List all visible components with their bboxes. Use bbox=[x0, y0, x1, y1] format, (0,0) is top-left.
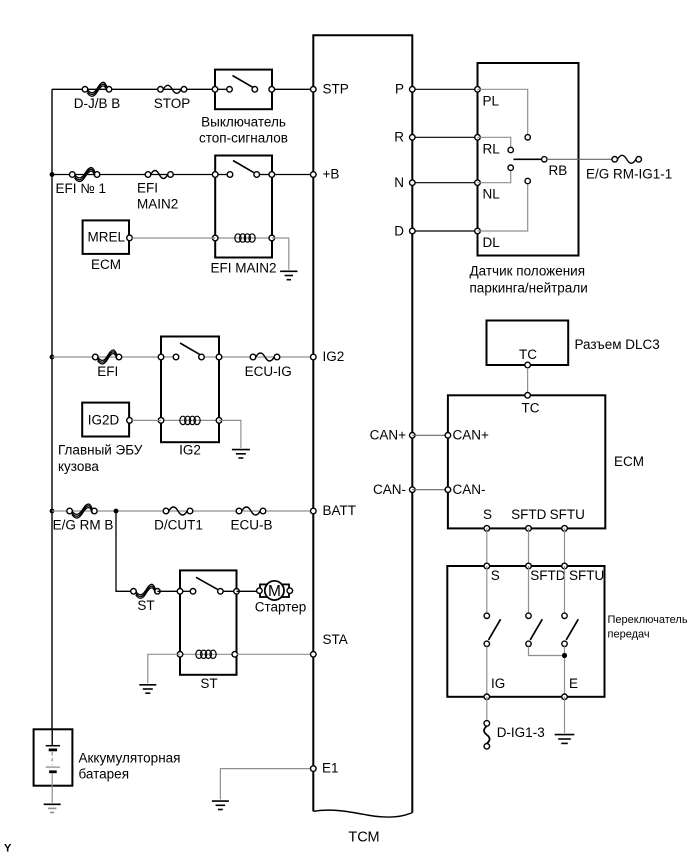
svg-text:STOP: STOP bbox=[154, 96, 191, 111]
label RB bbox=[549, 163, 568, 178]
wire SFTU to E bbox=[564, 647, 566, 697]
svg-text:ECM: ECM bbox=[91, 257, 121, 272]
pin CAN+ tcm bbox=[410, 433, 416, 439]
box shift switch bbox=[447, 566, 604, 697]
relay IG2 box bbox=[161, 337, 219, 443]
label STP bbox=[323, 81, 349, 96]
wire D row bbox=[412, 230, 477, 232]
label RL bbox=[483, 141, 501, 156]
pin SFTU ecm bbox=[562, 526, 568, 532]
label TC ecm bbox=[522, 401, 540, 416]
label S sw bbox=[491, 568, 500, 583]
wire SFTD down bbox=[528, 528, 530, 566]
fuse ECU-B bbox=[236, 507, 266, 515]
wire STP row bbox=[52, 88, 313, 90]
IC TCM (transmission control module) outline with torn bottom edge bbox=[313, 35, 412, 817]
wire CAN- bbox=[412, 489, 448, 491]
pin CAN+ ecm bbox=[445, 433, 451, 439]
label IG bbox=[491, 676, 505, 691]
label CAN+ ecm bbox=[453, 428, 490, 443]
ground G5 E1 bbox=[212, 801, 229, 809]
wire IG2D to relay coil bbox=[132, 419, 161, 421]
label N bbox=[394, 175, 404, 190]
wire BATT row bbox=[52, 510, 313, 512]
label IG2 relay bbox=[179, 443, 201, 458]
wire SFTD to junction bbox=[529, 647, 565, 656]
svg-text:ST: ST bbox=[137, 598, 154, 613]
svg-text:Переключатель: Переключатель bbox=[608, 614, 688, 626]
ground G4 battery bbox=[44, 804, 61, 812]
svg-text:EFI № 1: EFI № 1 bbox=[56, 181, 107, 196]
svg-text:EFI: EFI bbox=[137, 180, 158, 195]
box park/neutral position sensor bbox=[478, 63, 579, 256]
svg-text:N: N bbox=[394, 175, 404, 190]
pin STA bbox=[311, 652, 317, 658]
label E/G RM-IG1-1 bbox=[586, 166, 672, 181]
svg-text:SFTU: SFTU bbox=[569, 568, 604, 583]
svg-text:паркинга/нейтрали: паркинга/нейтрали bbox=[470, 280, 588, 295]
relay ST coil bbox=[177, 650, 237, 658]
label SFTU sw bbox=[569, 568, 604, 583]
wire P row bbox=[412, 88, 477, 90]
switch S contacts bbox=[484, 566, 501, 647]
label E/G RM B bbox=[53, 518, 114, 533]
label TCM bbox=[348, 830, 379, 846]
svg-text:D: D bbox=[394, 223, 404, 238]
wire SFTU down bbox=[564, 528, 566, 566]
label BATT bbox=[323, 503, 357, 518]
svg-text:ST: ST bbox=[200, 676, 217, 691]
label CAN+ tcm bbox=[370, 428, 407, 443]
pin S ecm bbox=[484, 526, 490, 532]
label E1 bbox=[322, 761, 339, 776]
svg-text:стоп-сигналов: стоп-сигналов bbox=[199, 130, 288, 145]
svg-text:IG2D: IG2D bbox=[88, 412, 120, 427]
svg-text:E/G RM B: E/G RM B bbox=[53, 518, 114, 533]
svg-text:IG2: IG2 bbox=[323, 349, 345, 364]
svg-text:Аккумуляторная: Аккумуляторная bbox=[79, 750, 181, 765]
svg-text:S: S bbox=[483, 507, 492, 522]
svg-text:CAN-: CAN- bbox=[453, 482, 486, 497]
wire left supply bus from battery bbox=[51, 89, 53, 729]
relay IG2 contact bbox=[158, 343, 222, 360]
wire N row bbox=[412, 182, 477, 184]
wire coil to ground G1 bbox=[272, 238, 289, 270]
svg-text:ECU-B: ECU-B bbox=[230, 518, 272, 533]
pin P bbox=[410, 87, 416, 93]
fuse EFI MAIN2 bbox=[145, 171, 173, 179]
svg-text:TC: TC bbox=[522, 401, 540, 416]
label EFI MAIN2 relay bbox=[210, 261, 276, 276]
svg-text:Выключатель: Выключатель bbox=[201, 115, 286, 130]
svg-text:D-IG1-3: D-IG1-3 bbox=[497, 725, 545, 740]
svg-text:MREL: MREL bbox=[88, 230, 126, 245]
label S ecm bbox=[483, 507, 492, 522]
svg-text:CAN+: CAN+ bbox=[370, 428, 407, 443]
ground G6 shift switch E bbox=[555, 735, 575, 744]
svg-text:CAN-: CAN- bbox=[373, 482, 406, 497]
relay ST contact bbox=[177, 577, 239, 594]
pin IG2 bbox=[311, 354, 317, 360]
label CAN- tcm bbox=[373, 482, 406, 497]
pin CAN- ecm bbox=[445, 487, 451, 493]
pin SFTD ecm bbox=[526, 526, 532, 532]
fuse STOP bbox=[158, 85, 187, 93]
svg-text:передач: передач bbox=[608, 628, 650, 640]
box MREL (ECM) bbox=[83, 220, 129, 254]
label NL bbox=[483, 187, 501, 202]
label PL bbox=[483, 93, 500, 108]
wire RL to contact bbox=[478, 137, 511, 147]
svg-text:IG: IG bbox=[491, 676, 505, 691]
wire MREL to relay coil bbox=[132, 237, 215, 239]
svg-text:EFI MAIN2: EFI MAIN2 bbox=[210, 261, 276, 276]
svg-text:D/CUT1: D/CUT1 bbox=[154, 518, 203, 533]
svg-text:ECM: ECM bbox=[614, 454, 644, 469]
node junction IG2 row bbox=[50, 355, 55, 360]
svg-text:P: P bbox=[395, 82, 404, 97]
wire IG to fuse bbox=[486, 697, 488, 721]
svg-text:кузова: кузова bbox=[58, 459, 99, 474]
label CAN- ecm bbox=[453, 482, 486, 497]
fuse D/CUT1 bbox=[163, 507, 193, 515]
svg-text:STA: STA bbox=[323, 632, 348, 647]
box ECM bbox=[448, 395, 605, 528]
contact DL bbox=[525, 178, 530, 183]
wire S down bbox=[486, 528, 488, 566]
svg-text:STP: STP bbox=[323, 81, 349, 96]
label TC in DLC3 bbox=[519, 347, 537, 362]
label Стартер bbox=[255, 600, 307, 615]
pin E bbox=[562, 694, 568, 700]
wire ST branch drop bbox=[116, 511, 134, 591]
relay EFI MAIN2 box bbox=[215, 156, 272, 258]
fuse EFI No1 bbox=[70, 168, 100, 182]
label EFI № 1 bbox=[56, 181, 107, 196]
pin PL bbox=[475, 87, 481, 93]
pin NL bbox=[475, 180, 481, 186]
wire R row bbox=[412, 136, 477, 138]
svg-text:PL: PL bbox=[483, 93, 500, 108]
pin STP bbox=[311, 87, 317, 93]
label E bbox=[569, 676, 578, 691]
pin +B bbox=[311, 172, 317, 178]
contact NL bbox=[508, 165, 513, 170]
fuse D-J/B B bbox=[82, 82, 112, 96]
svg-text:RB: RB bbox=[549, 163, 568, 178]
svg-text:R: R bbox=[394, 130, 404, 145]
pin D bbox=[410, 228, 416, 234]
relay EFI MAIN2 coil bbox=[212, 234, 274, 242]
pin MREL output bbox=[127, 235, 133, 241]
wire ST fuse to relay bbox=[157, 590, 180, 592]
pin DL bbox=[475, 228, 481, 234]
svg-text:E: E bbox=[569, 676, 578, 691]
svg-text:SFTD: SFTD bbox=[511, 507, 546, 522]
label ST fuse bbox=[137, 598, 154, 613]
label DL bbox=[483, 235, 501, 250]
wire NL to contact bbox=[478, 171, 511, 183]
motor starter M bbox=[257, 581, 293, 600]
battery cells bbox=[46, 729, 60, 803]
label SFTU ecm bbox=[550, 507, 585, 522]
label EFI bbox=[97, 364, 118, 379]
svg-text:Стартер: Стартер bbox=[255, 600, 307, 615]
label ECU-IG bbox=[245, 364, 292, 379]
label P bbox=[395, 82, 404, 97]
pin SFTU sw bbox=[562, 563, 568, 569]
svg-text:SFTU: SFTU bbox=[550, 507, 585, 522]
label Переключатель передач bbox=[608, 614, 688, 641]
fuse D-IG1-3 bbox=[484, 721, 490, 749]
label D-IG1-3 bbox=[497, 725, 545, 740]
pin BATT bbox=[311, 508, 317, 514]
relay IG2 coil bbox=[158, 416, 222, 424]
svg-text:E/G RM-IG1-1: E/G RM-IG1-1 bbox=[586, 166, 672, 181]
pin IG bbox=[484, 694, 490, 700]
svg-text:SFTD: SFTD bbox=[530, 568, 565, 583]
label SFTD sw bbox=[530, 568, 565, 583]
node junction +B row bbox=[50, 172, 55, 177]
label Главный ЭБУ кузова bbox=[58, 443, 143, 474]
svg-text:Y: Y bbox=[4, 843, 12, 855]
wire IG2 coil to ground G2 bbox=[219, 420, 241, 448]
node junction SFTD/SFTU bbox=[562, 653, 567, 658]
wire RB to fuse bbox=[547, 158, 615, 160]
ground G3 bbox=[139, 685, 156, 693]
svg-text:CAN+: CAN+ bbox=[453, 428, 490, 443]
label D/CUT1 bbox=[154, 518, 203, 533]
fuse EFI bbox=[93, 350, 122, 364]
svg-text:S: S bbox=[491, 568, 500, 583]
label Разъем DLC3 bbox=[575, 337, 660, 352]
wire ST coil to ground G3 bbox=[148, 654, 180, 683]
svg-text:E1: E1 bbox=[322, 761, 339, 776]
label R bbox=[394, 130, 404, 145]
switch SFTD contacts bbox=[526, 566, 543, 647]
pin SFTD sw bbox=[526, 563, 532, 569]
svg-text:TC: TC bbox=[519, 347, 537, 362]
pin TC ecm bbox=[525, 393, 531, 399]
label ECU-B bbox=[230, 518, 272, 533]
svg-text:DL: DL bbox=[483, 235, 501, 250]
pin TC dlc3 bbox=[525, 362, 531, 368]
node junction ST branch bbox=[114, 509, 119, 514]
pin N bbox=[410, 180, 416, 186]
label Выключатель стоп-сигналов bbox=[199, 115, 288, 146]
contact RL bbox=[508, 147, 513, 152]
label Датчик положения паркинга/нейтрали bbox=[470, 263, 588, 295]
label ST relay bbox=[200, 676, 217, 691]
svg-text:IG2: IG2 bbox=[179, 443, 201, 458]
relay EFI MAIN2 contact bbox=[212, 161, 274, 178]
pin RL bbox=[475, 135, 481, 141]
label MREL bbox=[88, 230, 126, 245]
label EFI MAIN2 fuse bbox=[137, 180, 178, 211]
label IG2 bbox=[323, 349, 345, 364]
box DLC3 connector bbox=[487, 321, 569, 366]
svg-text:+B: +B bbox=[323, 167, 340, 182]
svg-text:Разъем DLC3: Разъем DLC3 bbox=[575, 337, 660, 352]
label D-J/B B bbox=[74, 96, 121, 111]
label ECM bbox=[614, 454, 644, 469]
svg-text:Главный ЭБУ: Главный ЭБУ bbox=[58, 443, 143, 458]
svg-text:ECU-IG: ECU-IG bbox=[245, 364, 292, 379]
wire +B row bbox=[52, 174, 313, 176]
wire IG2 row bbox=[52, 356, 313, 358]
wire E to ground bbox=[564, 697, 566, 733]
label Аккумуляторная батарея bbox=[79, 750, 181, 781]
svg-text:ТСМ: ТСМ bbox=[348, 830, 379, 846]
svg-text:MAIN2: MAIN2 bbox=[137, 197, 178, 212]
wire relay to starter bbox=[237, 590, 257, 592]
svg-text:Датчик положения: Датчик положения bbox=[470, 263, 586, 278]
wire PL to contact bbox=[478, 89, 528, 134]
fuse ST bbox=[131, 584, 161, 598]
label STA bbox=[323, 632, 348, 647]
label +B bbox=[323, 167, 340, 182]
fuse E/G RM B bbox=[67, 504, 97, 518]
label ECM under MREL bbox=[91, 257, 121, 272]
wire TC to ECM bbox=[527, 368, 529, 393]
svg-text:BATT: BATT bbox=[323, 503, 357, 518]
svg-text:EFI: EFI bbox=[97, 364, 118, 379]
switch arm RB pole bbox=[514, 157, 548, 162]
svg-text:D-J/B B: D-J/B B bbox=[74, 96, 121, 111]
pin S sw bbox=[484, 563, 490, 569]
pin E1 bbox=[311, 766, 317, 772]
fuse E/G RM-IG1-1 bbox=[612, 155, 642, 163]
page mark Y bbox=[4, 843, 12, 855]
relay ST box bbox=[180, 570, 237, 674]
pin CAN- tcm bbox=[410, 487, 416, 493]
wire E1 row bbox=[220, 769, 313, 800]
ground G1 bbox=[280, 271, 297, 279]
switch stop lamp switch bbox=[212, 70, 274, 110]
ground G2 bbox=[232, 450, 250, 458]
svg-text:батарея: батарея bbox=[79, 767, 130, 782]
node junction BATT row bbox=[50, 509, 55, 514]
pin IG2D output bbox=[127, 418, 133, 424]
fuse ECU-IG bbox=[250, 353, 280, 361]
label IG2D bbox=[88, 412, 120, 427]
svg-text:RL: RL bbox=[483, 141, 501, 156]
svg-text:M: M bbox=[268, 583, 281, 600]
wire CAN+ bbox=[412, 434, 448, 436]
switch SFTU contacts bbox=[562, 566, 579, 647]
wire S to IG bbox=[486, 647, 488, 697]
battery box bbox=[34, 729, 73, 785]
label STOP bbox=[154, 96, 191, 111]
wire STA row bbox=[237, 653, 314, 655]
wire DL to contact bbox=[478, 184, 528, 231]
pin R bbox=[410, 135, 416, 141]
box IG2D main body ECU bbox=[82, 403, 129, 437]
label D bbox=[394, 223, 404, 238]
label SFTD ecm bbox=[511, 507, 546, 522]
svg-text:NL: NL bbox=[483, 187, 501, 202]
contact PL bbox=[525, 135, 530, 140]
